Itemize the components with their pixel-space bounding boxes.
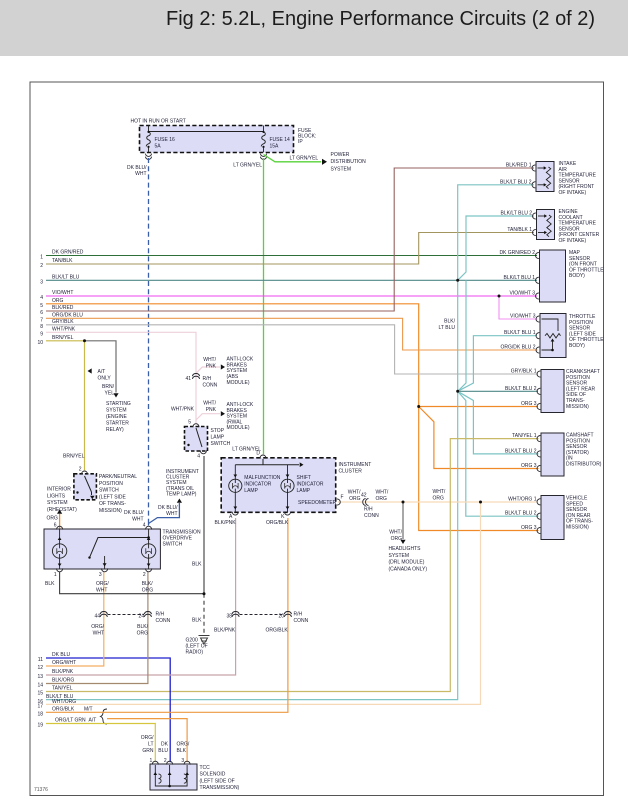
svg-text:7: 7 <box>40 318 43 324</box>
svg-text:VIO/WHT 3: VIO/WHT 3 <box>510 314 536 320</box>
svg-text:HOT IN RUN OR START: HOT IN RUN OR START <box>131 119 186 125</box>
svg-text:ORG 3: ORG 3 <box>521 401 537 407</box>
svg-text:ORG/DK BLU 2: ORG/DK BLU 2 <box>500 345 535 351</box>
svg-text:2: 2 <box>143 572 146 578</box>
svg-text:TEMP LAMP): TEMP LAMP) <box>166 491 197 497</box>
svg-text:GRN: GRN <box>142 748 154 754</box>
svg-text:5A: 5A <box>155 144 162 150</box>
svg-text:BLK/ORG: BLK/ORG <box>52 678 74 684</box>
svg-text:SYSTEM: SYSTEM <box>47 500 68 506</box>
svg-text:ORG: ORG <box>52 298 64 304</box>
svg-text:ORG: ORG <box>137 631 149 637</box>
svg-text:ORG/BLK: ORG/BLK <box>266 628 289 634</box>
svg-text:IP: IP <box>298 139 303 145</box>
svg-text:17: 17 <box>37 704 43 710</box>
svg-text:WHT/PNK: WHT/PNK <box>52 327 76 333</box>
svg-text:LAMP: LAMP <box>244 488 258 494</box>
svg-text:SWITCH: SWITCH <box>99 488 119 494</box>
svg-text:G200: G200 <box>186 637 198 643</box>
svg-text:LT GRN/YEL: LT GRN/YEL <box>233 163 262 169</box>
svg-text:BLK/PNK: BLK/PNK <box>214 628 236 634</box>
svg-text:WHT/: WHT/ <box>203 357 216 363</box>
svg-text:BLK: BLK <box>177 748 187 754</box>
svg-text:INDICATOR: INDICATOR <box>244 481 271 487</box>
svg-text:MISSION): MISSION) <box>566 404 589 410</box>
svg-text:CONN: CONN <box>364 513 379 519</box>
svg-text:ORG/BLK: ORG/BLK <box>266 520 289 526</box>
svg-text:BLK/LT BLU: BLK/LT BLU <box>52 275 80 281</box>
svg-text:(RHEOSTAT): (RHEOSTAT) <box>47 507 77 513</box>
svg-text:LT GRN/YEL: LT GRN/YEL <box>290 155 319 161</box>
svg-text:SYSTEM: SYSTEM <box>106 407 127 413</box>
svg-text:ORG: ORG <box>47 516 59 522</box>
svg-text:BLK: BLK <box>192 618 202 624</box>
svg-text:ONLY: ONLY <box>98 376 112 382</box>
svg-text:38: 38 <box>226 614 232 620</box>
svg-text:20: 20 <box>278 614 284 620</box>
svg-text:24: 24 <box>138 614 144 620</box>
svg-text:DISTRIBUTOR): DISTRIBUTOR) <box>566 462 602 468</box>
svg-text:GRY/BLK 1: GRY/BLK 1 <box>511 369 537 375</box>
svg-text:(DRL MODULE): (DRL MODULE) <box>389 560 425 566</box>
svg-text:OF INTAKE): OF INTAKE) <box>559 190 587 196</box>
svg-text:INSTRUMENT: INSTRUMENT <box>339 462 372 468</box>
svg-text:A/T: A/T <box>89 718 97 724</box>
svg-text:CONN: CONN <box>294 618 309 624</box>
svg-text:M/T: M/T <box>84 707 93 713</box>
svg-text:LT GRN/YEL: LT GRN/YEL <box>232 447 261 453</box>
svg-text:VIO/WHT: VIO/WHT <box>52 290 73 296</box>
svg-text:WHT/: WHT/ <box>433 489 446 495</box>
svg-text:MODULE): MODULE) <box>227 380 250 386</box>
svg-text:SHIFT: SHIFT <box>297 475 311 481</box>
svg-text:4: 4 <box>197 454 200 460</box>
svg-text:STOP: STOP <box>211 428 225 434</box>
svg-text:WHT/PNK: WHT/PNK <box>171 407 195 413</box>
svg-text:PNK: PNK <box>206 364 217 370</box>
svg-text:FUSE 14: FUSE 14 <box>270 137 291 143</box>
svg-text:ORG: ORG <box>349 496 361 502</box>
svg-text:BRN/YEL: BRN/YEL <box>63 454 85 460</box>
svg-text:ORG/WHT: ORG/WHT <box>52 660 76 666</box>
svg-text:18: 18 <box>37 712 43 718</box>
svg-text:DK GRN/RED 2: DK GRN/RED 2 <box>499 250 535 256</box>
svg-text:LT: LT <box>148 742 153 748</box>
svg-text:LAMP: LAMP <box>297 488 311 494</box>
svg-text:RELAY): RELAY) <box>106 427 124 433</box>
svg-text:TRANSMISSION): TRANSMISSION) <box>200 785 240 791</box>
svg-text:ORG 3: ORG 3 <box>521 525 537 531</box>
svg-text:5: 5 <box>188 420 191 426</box>
svg-text:LT BLU: LT BLU <box>439 325 456 331</box>
svg-text:F: F <box>341 494 344 500</box>
svg-text:SWITCH: SWITCH <box>163 542 183 548</box>
svg-text:3: 3 <box>40 280 43 286</box>
svg-text:ORG/: ORG/ <box>141 735 154 741</box>
svg-text:MODULE): MODULE) <box>227 425 250 431</box>
svg-text:R/H: R/H <box>203 376 212 382</box>
svg-text:ORG/: ORG/ <box>177 742 190 748</box>
svg-text:WHT/ORG 1: WHT/ORG 1 <box>508 496 537 502</box>
svg-text:VIO/WHT 3: VIO/WHT 3 <box>510 291 536 297</box>
svg-text:DK GRN/RED: DK GRN/RED <box>52 250 84 256</box>
svg-text:LIGHTS: LIGHTS <box>47 493 66 499</box>
svg-text:DK BLU/: DK BLU/ <box>124 510 144 516</box>
svg-text:WHT/: WHT/ <box>376 490 389 496</box>
svg-text:(ENGINE: (ENGINE <box>106 414 128 420</box>
svg-text:MISSION): MISSION) <box>566 525 589 531</box>
svg-text:2: 2 <box>79 467 82 473</box>
svg-text:BODY): BODY) <box>569 273 585 279</box>
svg-text:4: 4 <box>143 523 146 529</box>
svg-text:71376: 71376 <box>34 787 48 793</box>
svg-text:DK: DK <box>161 742 169 748</box>
svg-text:BLK/LT BLU 2: BLK/LT BLU 2 <box>500 179 532 185</box>
svg-text:BLK/LT BLU 2: BLK/LT BLU 2 <box>505 511 537 517</box>
svg-text:BLK/LT BLU 1: BLK/LT BLU 1 <box>504 275 536 281</box>
svg-text:INDICATOR: INDICATOR <box>297 481 324 487</box>
svg-text:BLU: BLU <box>158 748 168 754</box>
svg-text:WHT/: WHT/ <box>203 401 216 407</box>
svg-text:(LEFT SIDE OF: (LEFT SIDE OF <box>200 778 235 784</box>
svg-text:BLK: BLK <box>192 561 202 567</box>
svg-text:POWER: POWER <box>331 152 350 158</box>
svg-text:SWITCH: SWITCH <box>211 441 231 447</box>
svg-text:ORG: ORG <box>142 588 154 594</box>
svg-text:9: 9 <box>40 332 43 338</box>
svg-text:RADIO): RADIO) <box>186 650 204 656</box>
svg-text:1: 1 <box>150 758 153 764</box>
svg-text:MALFUNCTION: MALFUNCTION <box>244 475 280 481</box>
svg-text:TAN/YEL: TAN/YEL <box>52 686 73 692</box>
svg-text:OF INTAKE): OF INTAKE) <box>559 238 587 244</box>
svg-text:15A: 15A <box>270 144 280 150</box>
svg-text:(LEFT OF: (LEFT OF <box>186 644 208 650</box>
svg-text:BLK/LT BLU 2: BLK/LT BLU 2 <box>505 448 537 454</box>
svg-text:DISTRIBUTION: DISTRIBUTION <box>331 159 367 165</box>
svg-text:WHT: WHT <box>166 511 177 517</box>
svg-text:TAN/BLK 1: TAN/BLK 1 <box>507 227 532 233</box>
svg-text:6: 6 <box>40 310 43 316</box>
svg-text:WHT/: WHT/ <box>389 530 402 536</box>
svg-text:BLK: BLK <box>45 581 55 587</box>
svg-text:HEADLIGHTS: HEADLIGHTS <box>389 546 422 552</box>
svg-text:12: 12 <box>37 665 43 671</box>
svg-text:SOLENOID: SOLENOID <box>200 772 226 778</box>
svg-text:11: 11 <box>38 657 43 663</box>
svg-text:BLK/LT BLU 1: BLK/LT BLU 1 <box>504 330 536 336</box>
svg-text:BLK/PNK: BLK/PNK <box>52 669 74 675</box>
svg-text:BLK/PNK: BLK/PNK <box>215 520 237 526</box>
svg-text:2: 2 <box>40 263 43 269</box>
svg-text:14: 14 <box>37 683 43 689</box>
svg-text:WHT: WHT <box>132 516 143 522</box>
svg-text:BLK/RED: BLK/RED <box>52 305 74 311</box>
svg-text:LAMP: LAMP <box>211 435 225 441</box>
svg-text:ORG/: ORG/ <box>96 581 109 587</box>
svg-text:44: 44 <box>94 614 100 620</box>
svg-text:ORG: ORG <box>433 495 445 501</box>
svg-text:10: 10 <box>37 340 43 346</box>
svg-text:41: 41 <box>185 376 191 382</box>
svg-text:BLK/: BLK/ <box>137 624 148 630</box>
svg-text:1: 1 <box>40 255 43 261</box>
svg-text:R/H: R/H <box>364 507 373 513</box>
svg-text:R/H: R/H <box>294 612 303 618</box>
svg-text:BLK/: BLK/ <box>444 319 455 325</box>
svg-text:3: 3 <box>181 758 184 764</box>
svg-text:WHT/ORG: WHT/ORG <box>52 699 76 705</box>
svg-text:15: 15 <box>37 691 43 697</box>
svg-text:2: 2 <box>164 758 167 764</box>
svg-text:13: 13 <box>37 674 43 680</box>
svg-text:SYSTEM: SYSTEM <box>389 553 410 559</box>
svg-text:R/H: R/H <box>156 612 165 618</box>
svg-text:ORG/: ORG/ <box>91 624 104 630</box>
svg-text:FUSE 16: FUSE 16 <box>155 137 176 143</box>
svg-text:BRN/: BRN/ <box>102 384 115 390</box>
svg-text:BLK/: BLK/ <box>142 581 153 587</box>
svg-text:WHT: WHT <box>135 171 146 177</box>
svg-text:TAN/BLK: TAN/BLK <box>52 258 73 264</box>
svg-text:WHT/: WHT/ <box>348 490 361 496</box>
svg-text:BLK/RED 1: BLK/RED 1 <box>506 163 532 169</box>
svg-text:8: 8 <box>40 324 43 330</box>
svg-text:STARTING: STARTING <box>106 401 131 407</box>
svg-text:OF TRANS-: OF TRANS- <box>99 501 126 507</box>
svg-text:BRN/YEL: BRN/YEL <box>52 335 74 341</box>
svg-text:A/T: A/T <box>98 369 106 375</box>
svg-text:BODY): BODY) <box>569 343 585 349</box>
svg-text:3: 3 <box>99 572 102 578</box>
svg-text:YEL: YEL <box>105 391 115 397</box>
svg-text:ORG: ORG <box>376 496 388 502</box>
svg-text:PNK: PNK <box>206 407 217 413</box>
svg-text:BLK/LT BLU 2: BLK/LT BLU 2 <box>505 386 537 392</box>
svg-text:ORG: ORG <box>391 536 403 542</box>
svg-text:CONN: CONN <box>156 618 171 624</box>
svg-text:INTERIOR: INTERIOR <box>47 487 71 493</box>
svg-text:ORG/DK BLU: ORG/DK BLU <box>52 313 83 319</box>
svg-text:WHT: WHT <box>96 588 107 594</box>
svg-text:TCC: TCC <box>200 765 211 771</box>
svg-text:CONN: CONN <box>203 383 218 389</box>
svg-text:4: 4 <box>40 295 43 301</box>
svg-text:1: 1 <box>54 572 57 578</box>
svg-text:(LEFT SIDE: (LEFT SIDE <box>99 494 127 500</box>
svg-text:MISSION): MISSION) <box>99 508 122 514</box>
svg-text:ORG/LT GRN: ORG/LT GRN <box>55 718 86 724</box>
svg-text:GRY/BLK: GRY/BLK <box>52 319 74 325</box>
svg-text:DK BLU/: DK BLU/ <box>158 505 178 511</box>
svg-text:WHT: WHT <box>93 631 104 637</box>
svg-text:DK BLU: DK BLU <box>52 652 70 658</box>
svg-text:TAN/YEL 1: TAN/YEL 1 <box>512 433 537 439</box>
svg-text:POSITION: POSITION <box>99 481 123 487</box>
svg-text:SYSTEM: SYSTEM <box>331 166 352 172</box>
svg-text:6: 6 <box>54 523 57 529</box>
svg-text:PARK/NEUTRAL: PARK/NEUTRAL <box>99 474 137 480</box>
svg-text:ORG 3: ORG 3 <box>521 463 537 469</box>
svg-text:CLUSTER: CLUSTER <box>339 469 363 475</box>
svg-text:SPEEDOMETER: SPEEDOMETER <box>298 500 337 506</box>
svg-text:5: 5 <box>40 303 43 309</box>
svg-text:(CANADA ONLY): (CANADA ONLY) <box>389 566 428 572</box>
svg-text:STARTER: STARTER <box>106 420 129 426</box>
svg-text:19: 19 <box>37 723 43 729</box>
svg-text:ORG/BLK: ORG/BLK <box>52 707 75 713</box>
svg-text:BLK/LT BLU 2: BLK/LT BLU 2 <box>501 211 533 217</box>
svg-text:42: 42 <box>361 493 367 499</box>
